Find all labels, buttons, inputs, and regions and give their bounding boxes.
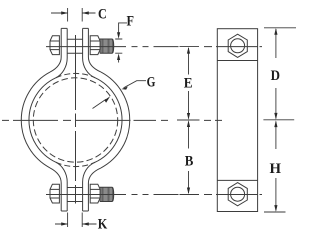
top bolt threaded stud [100,39,114,53]
arrowhead B top [187,120,190,127]
arrowhead C left [61,11,68,14]
wire: pipe centerline horizontal y=120 [2,119,222,121]
pipe circle pointer line [93,99,107,108]
bottom left ear plate [50,162,67,211]
side view top hex nut [228,34,247,57]
top right ear plate [83,28,101,77]
bottom bolt threaded stud [100,187,114,201]
side view band upper edge line [217,60,257,62]
arrowhead H bottom [274,205,277,212]
arrowhead F bottom [117,54,120,61]
svg-text:B: B [185,154,194,170]
arrowhead E top [187,47,190,54]
dimension K arrow lines [55,223,97,225]
clamp band inner circle hidden bottom arc [56,162,95,166]
dimension E B line x=188.5 [188,48,190,193]
arrowhead D top [274,28,277,35]
svg-text:C: C [98,7,107,23]
arrowhead E bottom [187,113,190,120]
arrowhead G leader [121,87,128,90]
dimension F leader [119,23,127,63]
side view band lower edge line [217,179,257,181]
wire: top bolt centerline y=46.6 [46,46,262,48]
bottom bolt right hex nut [90,184,100,203]
dimension E B tick lines [177,47,200,195]
svg-text:F: F [126,14,134,30]
arrowhead B bottom [187,188,190,195]
bottom right ear plate [83,162,101,211]
clamp band outer circle left arc [21,72,50,168]
arrowhead H top [274,120,277,127]
bottom bolt left hex nut [50,184,59,203]
svg-text:G: G [147,74,156,90]
svg-text:E: E [184,75,193,91]
bottom bolt shank between ears [67,188,82,202]
top bolt shank between ears [67,39,82,53]
arrowhead D bottom [274,113,277,120]
arrowhead F top [117,32,120,39]
dimension K extension lines [68,213,83,228]
pipe hidden circle (dashed) [33,78,117,162]
arrowhead K left [61,222,68,225]
dimension F tick lines [115,39,122,53]
dimension G leader [124,81,147,88]
top bolt right hex nut [90,36,100,55]
clamp band outer circle right arc [101,72,130,168]
dimension D H tick lines [263,28,296,212]
dimension C extension lines [68,8,83,22]
arrowhead pipe pointer [104,96,110,103]
arrowhead C right [82,11,89,14]
clamp band inner circle hidden top arc [56,73,95,77]
side view bottom hex nut [228,183,247,206]
top bolt left hex nut [50,36,59,55]
svg-text:K: K [98,216,108,232]
wire: bottom bolt centerline y=194.5 [46,194,262,196]
dimension D H line x=275.9 [275,29,277,211]
svg-text:H: H [270,161,282,177]
dimension C arrow lines [51,12,96,14]
side view band rectangle [217,29,257,212]
clamp band inner circle left arc [29,78,56,162]
arrowhead K right [82,222,89,225]
top left ear plate [50,28,67,77]
svg-text:D: D [271,68,281,84]
side view top bolt circle [231,39,245,53]
clamp band inner circle right arc [95,78,122,162]
wire: clamp vertical centerline x=75.5 [75,35,77,204]
side view bottom bolt circle [231,187,245,201]
